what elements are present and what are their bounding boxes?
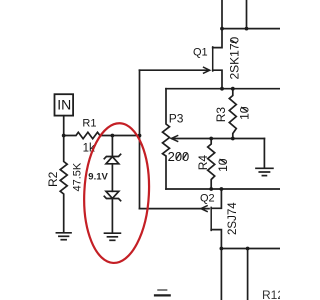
- svg-text:IN: IN: [57, 97, 71, 113]
- connector IN (input terminal box): [55, 94, 74, 115]
- svg-text:P3: P3: [169, 112, 184, 126]
- wire IN to node A: [63, 116, 65, 136]
- wire lower rail y=189: [166, 188, 280, 190]
- value 10 (R3): [238, 106, 252, 120]
- zener diode D1 (cathode up): [104, 154, 120, 164]
- resistor R3: [229, 89, 236, 139]
- svg-text:9.1V: 9.1V: [88, 172, 108, 183]
- wire wiper to ground: [263, 139, 265, 168]
- wire drop to bottom left: [220, 249, 222, 300]
- wire D2 to ground: [111, 199, 113, 233]
- svg-text:10: 10: [238, 106, 252, 120]
- wire D1 to D2: [111, 164, 113, 192]
- wire gate of Q1: [140, 69, 209, 71]
- zener diode D2 (cathode down): [104, 191, 120, 200]
- wire V+ rail top: [222, 28, 280, 30]
- wire source rail y=88.7: [166, 88, 280, 90]
- svg-text:47.5K: 47.5K: [71, 162, 83, 191]
- value 10 (R4): [216, 158, 230, 172]
- ground below R2: [56, 233, 71, 240]
- red highlight ellipse: [81, 122, 152, 265]
- wire gate net vertical: [139, 70, 141, 208]
- svg-text:R12: R12: [262, 288, 280, 300]
- value 2SK170: [228, 36, 242, 79]
- svg-text:10: 10: [216, 158, 230, 172]
- P3 wiper arrow: [171, 136, 264, 142]
- ground (inverted) bottom edge: [155, 290, 170, 295]
- svg-text:2SJ74: 2SJ74: [227, 202, 239, 235]
- transistor Q1 2SK170: [204, 0, 222, 89]
- resistor R2: [60, 136, 67, 232]
- resistor R1: [64, 132, 140, 138]
- svg-text:R2: R2: [46, 171, 60, 187]
- value 200: [168, 149, 190, 164]
- resistor R4: [208, 139, 215, 190]
- svg-text:R1: R1: [82, 118, 96, 130]
- svg-text:Q2: Q2: [200, 193, 215, 205]
- wire node A to zener D1: [111, 136, 113, 157]
- wire drop to bottom right: [247, 249, 249, 300]
- wire output rail y=248.5: [221, 248, 280, 250]
- svg-text:R3: R3: [214, 107, 228, 123]
- ground below zeners: [105, 233, 121, 240]
- ground at wiper: [256, 168, 273, 175]
- transistor Q2 2SJ74: [201, 189, 222, 249]
- wire drop at x=246.5: [246, 0, 248, 29]
- potentiometer P3: [163, 89, 170, 189]
- svg-text:Q1: Q1: [193, 46, 208, 58]
- svg-text:R4: R4: [196, 155, 210, 171]
- wire gate of Q2: [140, 208, 210, 210]
